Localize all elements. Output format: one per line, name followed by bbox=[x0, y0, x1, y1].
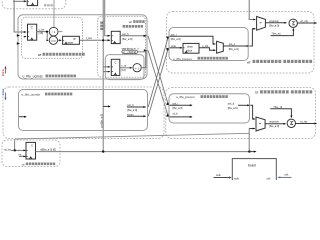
label wr-side dashed area name bbox=[247, 60, 312, 65]
wire: rd mux in2 branch from vertical bbox=[249, 128, 254, 130]
wire: c_rbl counter out to =1 circle bbox=[120, 67, 132, 69]
wire: pot_d output to rd mux bbox=[238, 104, 249, 106]
label area1 name bbox=[38, 53, 85, 57]
container: RD dashed area right bbox=[166, 88, 316, 139]
wires into c_rbl counter bbox=[103, 66, 110, 68]
container area2: dashed inner area (wr write timing) bbox=[98, 16, 146, 77]
svg-text:f_out: f_out bbox=[86, 36, 92, 40]
label C5 name bbox=[176, 95, 228, 99]
wire: wr mux out to sum bbox=[265, 22, 286, 24]
svg-text:wr: wr bbox=[129, 20, 132, 24]
svg-text:pot_b: pot_b bbox=[127, 103, 134, 107]
svg-text:rd_inc: rd_inc bbox=[4, 147, 12, 151]
svg-text:wrpncwr: wrpncwr bbox=[269, 120, 279, 124]
annotation: blue down arrow left edge bbox=[5, 93, 7, 99]
wires: C5 input port wires bbox=[170, 104, 192, 106]
svg-text:bcmc: bcmc bbox=[127, 112, 134, 116]
wire: from c_rbl tag to C1 edge port bbox=[138, 50, 146, 52]
wire: wrte into down/wrbpr bbox=[170, 47, 182, 49]
label area2 rotated text left edge bbox=[100, 22, 103, 31]
container C4: u_fifo_precon (wr receive) bbox=[169, 28, 248, 61]
svg-text:wrte: wrte bbox=[171, 44, 176, 48]
block M1: small mux in C4 bbox=[217, 41, 224, 53]
diagonal D4: C2 out2 to C4 port2 bbox=[148, 48, 168, 116]
svg-text:pot_i: pot_i bbox=[171, 32, 177, 36]
wire: pot_b output to C1 edge bbox=[120, 35, 145, 37]
svg-text:rd: rd bbox=[22, 162, 25, 166]
svg-text:rd: rd bbox=[255, 91, 258, 95]
block: rd sum circle bbox=[287, 119, 295, 127]
wire: long rd output wire bbox=[36, 151, 250, 153]
block: rd mux trapezoid bbox=[256, 117, 265, 131]
svg-text:[8w_a:0]: [8w_a:0] bbox=[122, 37, 132, 41]
svg-text:[16]: [16] bbox=[39, 31, 44, 35]
compare circle E2 bbox=[49, 36, 57, 44]
stub from E1 output bbox=[58, 31, 63, 33]
svg-text:rd_b: rd_b bbox=[173, 111, 179, 115]
svg-text:c_rb: c_rb bbox=[121, 65, 126, 68]
port notch marks inside blocks bbox=[26, 1, 184, 156]
wire: 7brs_wt stub into sum bottom bbox=[271, 29, 294, 36]
svg-text:[8w_a:0]: [8w_a:0] bbox=[173, 106, 183, 110]
label C2 name bbox=[22, 93, 73, 97]
block: counter C1a in area1 bbox=[28, 24, 37, 40]
label C3 name bbox=[22, 162, 55, 166]
label rd-side dashed area name bbox=[255, 90, 312, 94]
svg-text:u_fifo_precon: u_fifo_precon bbox=[173, 57, 192, 61]
block: counter in c_rbl bbox=[111, 59, 120, 75]
wire: rd_inc into C3 counter bbox=[11, 149, 25, 151]
block: rd counter bbox=[26, 142, 36, 159]
block: wr mux trapezoid bbox=[257, 17, 266, 31]
svg-text:[8w_a:0]: [8w_a:0] bbox=[269, 124, 279, 128]
wires: C2 outputs to edge bbox=[127, 106, 145, 108]
container: WR dashed area right bbox=[167, 12, 315, 74]
block: wr counter (cut at top) bbox=[27, 0, 37, 6]
svg-text:rd_rdy: rd_rdy bbox=[300, 120, 308, 124]
svg-text:rd[8w_a:0] [8]: rd[8w_a:0] [8] bbox=[40, 147, 56, 151]
wire: branch down to E2 bbox=[46, 32, 49, 41]
svg-text:wrbpr: wrbpr bbox=[186, 50, 192, 53]
svg-text:[8w_a:0]: [8w_a:0] bbox=[228, 106, 238, 110]
svg-text:wt_rdy: wt_rdy bbox=[300, 19, 308, 23]
stub into counter port2 bbox=[24, 36, 27, 38]
container: left dashed area (rd side, left) bbox=[3, 87, 164, 139]
label dots of cut wr counter area bbox=[44, 4, 53, 6]
svg-text:pot[8w_a:0]: pot[8w_a:0] bbox=[99, 114, 103, 128]
label area2 name two lines bbox=[123, 20, 145, 28]
svg-text:u_fifo_precon: u_fifo_precon bbox=[176, 95, 195, 99]
diagonal D3: C2 out1 to C4 port1 bbox=[148, 37, 168, 107]
compare circle =1 bbox=[133, 64, 141, 72]
block: pot register in area2 bbox=[111, 31, 120, 43]
container C1: u_fifo_ucmds upper subsystem bbox=[18, 15, 147, 79]
container C3: rd address counter dashed area bbox=[2, 140, 60, 167]
svg-text:bram: bram bbox=[248, 163, 256, 167]
port arrows on C1 left edge bbox=[17, 34, 20, 44]
wire: vertical x=14.6 from diagonal down to rd_inc wire bbox=[14, 139, 16, 150]
svg-text:[8w_a:0]: [8w_a:0] bbox=[171, 37, 181, 41]
wire: counter C1a output to compare circles bbox=[37, 31, 48, 33]
svg-text:down: down bbox=[187, 45, 194, 48]
container: c_rbl sub container bbox=[105, 55, 144, 80]
svg-text:p_stb: p_stb bbox=[202, 44, 209, 48]
container C2: u_fifo_ucmds middle subsystem bbox=[19, 90, 148, 131]
svg-text:==2: ==2 bbox=[51, 39, 56, 43]
svg-text:pot_o: pot_o bbox=[229, 42, 236, 46]
compare circle E1 bbox=[49, 27, 58, 36]
container area1: dashed inner area (wr address set) bbox=[22, 17, 83, 58]
svg-text:wrpncwr: wrpncwr bbox=[269, 19, 279, 23]
container C5: u_fifo_precon (rd receive) bbox=[169, 94, 250, 123]
wire: p_stb to M1 bbox=[199, 48, 215, 50]
wire: vertical branch x=14.1 from wr-inc wire down into C1 counter bbox=[14, 0, 26, 32]
wire: dangling arrow right of dot bbox=[249, 151, 255, 153]
diagonal D2: C1 c_rbl out to C5 port2 bbox=[148, 50, 168, 116]
wire: vertical line A x=103.2 (rd bus) from top to long rd wire bbox=[102, 0, 104, 152]
wire: dangling input arrow inside C2 bbox=[19, 116, 26, 118]
container: top-left cut dashed area (wr address counter) bbox=[2, 0, 65, 9]
wire: wr mux input1 from top vertical x=249.2 bbox=[249, 0, 255, 20]
svg-text:pot_b: pot_b bbox=[122, 32, 129, 36]
wire: vertical line B x=104.7 from top into pot block port1 bbox=[105, 0, 110, 36]
svg-text:wclk: wclk bbox=[216, 174, 221, 177]
wire: =1 out up to C1 edge port bbox=[141, 50, 146, 68]
svg-text:= 1: = 1 bbox=[135, 66, 139, 70]
svg-text:[8w_a:0]: [8w_a:0] bbox=[229, 47, 239, 51]
wire: wt_rdy output bbox=[297, 22, 316, 24]
wire: rd_rdy output bbox=[296, 123, 317, 125]
svg-text:c_rbl[1]: c_rbl[1] bbox=[123, 51, 137, 54]
svg-text:u_fifo_ucmds: u_fifo_ucmds bbox=[22, 93, 41, 97]
svg-text:7brs_wt: 7brs_wt bbox=[271, 32, 280, 36]
label C4 name bbox=[173, 57, 228, 61]
wire: f_out from up/wber to pot block bbox=[79, 39, 109, 41]
svg-text:wber: wber bbox=[68, 42, 74, 45]
annotation: red up arrow left edge bbox=[5, 68, 7, 74]
block: up/wber bbox=[63, 36, 80, 44]
svg-text:u_fifo_ucmds: u_fifo_ucmds bbox=[23, 75, 43, 79]
wire: rd mux out to rd sum bbox=[265, 123, 285, 125]
wire: pot_i inside C4 to M1 bbox=[170, 36, 216, 44]
block: bram bbox=[232, 159, 276, 184]
svg-text:pot_d: pot_d bbox=[228, 101, 235, 105]
label C1 name bbox=[23, 75, 76, 79]
diagonal D1: C1 pot_b to C5 port1 bbox=[148, 36, 168, 105]
svg-text:[8w_a:0]: [8w_a:0] bbox=[127, 108, 137, 112]
wire: vertical x=249.2 down to long rd wire dot bbox=[248, 129, 250, 152]
wire: wr_inc input wire to wr counter bbox=[13, 0, 26, 2]
wire: branch arrow from rd bus inside C2 bbox=[103, 105, 110, 107]
svg-text:[8w_a:0]: [8w_a:0] bbox=[269, 24, 279, 28]
wire: shallow diagonal from rd_inc vertical to rd mux feed vertical bbox=[15, 133, 250, 139]
wire: vertical branch x=54 down to compare circle E1 bbox=[53, 0, 55, 27]
wire: blue rdb into bram right bbox=[279, 176, 292, 178]
wire: 7brs_rd stub into rd sum top bbox=[270, 109, 291, 117]
wire: pot_o from M1 to C4 edge and up to wr mux bbox=[223, 45, 248, 47]
svg-text:< 1: < 1 bbox=[52, 30, 56, 34]
svg-text:wclk: wclk bbox=[234, 177, 240, 180]
wire: E2 to up/wber block bbox=[58, 39, 61, 41]
svg-text:pot_i: pot_i bbox=[173, 101, 179, 105]
block: down/wrbpr bbox=[183, 43, 199, 53]
svg-text:[16]: [16] bbox=[121, 69, 125, 72]
svg-text:7brs_rd: 7brs_rd bbox=[273, 105, 282, 109]
block: wr sum circle bbox=[289, 19, 297, 27]
